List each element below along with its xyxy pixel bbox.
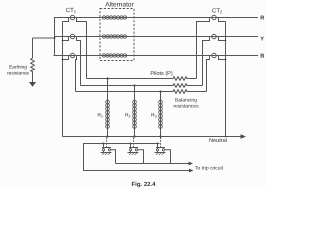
svg-text:Alternator: Alternator	[105, 2, 134, 9]
svg-text:Earthing: Earthing	[9, 65, 27, 71]
svg-text:resistances: resistances	[173, 104, 199, 110]
svg-text:resistance: resistance	[7, 71, 29, 77]
svg-text:B: B	[260, 54, 264, 60]
svg-text:Neutral: Neutral	[209, 137, 227, 144]
svg-text:CT2: CT2	[212, 8, 223, 15]
svg-text:To trip circuit: To trip circuit	[195, 165, 224, 171]
svg-text:CT1: CT1	[66, 7, 77, 14]
svg-text:Fig. 22.4: Fig. 22.4	[131, 181, 156, 188]
svg-text:R1: R1	[97, 113, 103, 119]
svg-text:R3: R3	[151, 113, 157, 119]
svg-text:Y: Y	[260, 36, 264, 42]
svg-text:R: R	[260, 16, 264, 22]
svg-text:R2: R2	[125, 113, 131, 119]
svg-text:Pilots (P): Pilots (P)	[150, 71, 172, 77]
